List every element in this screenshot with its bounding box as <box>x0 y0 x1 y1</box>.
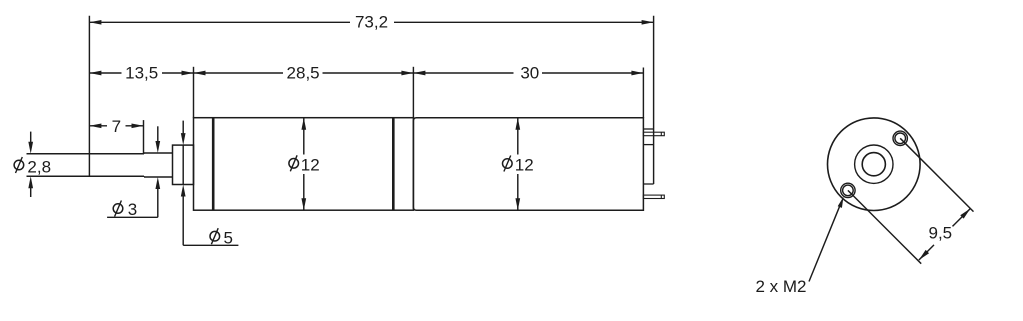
end view: bearing boss circle <box>855 145 893 183</box>
dimension 30 <box>413 64 643 83</box>
svg-text:3: 3 <box>128 200 137 219</box>
extension line at shaft tip x=89.4 <box>88 16 90 176</box>
svg-text:9,5: 9,5 <box>929 224 953 243</box>
dimension Ø12 motor <box>515 118 520 211</box>
gearbox rear bearing plate line <box>392 118 395 211</box>
dimension Ø2,8 arrows <box>28 132 33 197</box>
shaft Ø2.8 section <box>27 154 145 176</box>
svg-text:73,2: 73,2 <box>355 13 388 32</box>
extension line motor front x=413.4 <box>412 67 414 118</box>
svg-text:12: 12 <box>301 155 320 174</box>
end view: motor face circle <box>828 118 921 211</box>
dimension 28,5 <box>194 64 414 83</box>
label Ø12 gearbox <box>289 155 320 174</box>
gearbox front bearing plate line <box>212 118 215 211</box>
end view: shaft hole <box>862 153 885 176</box>
label Ø5 <box>210 228 233 247</box>
shaft Ø3 section <box>144 153 173 177</box>
gearbox body <box>194 118 414 211</box>
svg-text:13,5: 13,5 <box>125 64 158 83</box>
label Ø2,8 <box>14 157 51 176</box>
terminal pin top <box>643 132 664 136</box>
dimension 73,2 overall length <box>89 13 653 32</box>
leader 2 x M2 <box>756 197 844 296</box>
dimension 13,5 <box>89 64 193 83</box>
svg-text:7: 7 <box>112 117 121 136</box>
terminal pin bottom <box>643 195 664 198</box>
dimension Ø12 gearbox <box>301 118 306 211</box>
dimension 7 shaft front section <box>89 117 143 136</box>
label Ø3 <box>113 200 137 219</box>
motor body <box>413 118 643 211</box>
label Ø12 motor <box>503 155 534 174</box>
svg-text:28,5: 28,5 <box>287 64 320 83</box>
svg-text:5: 5 <box>224 228 233 247</box>
flange Ø5 <box>173 145 194 184</box>
mounting hole M2 upper right <box>893 131 907 145</box>
dimension Ø5 leader and arrows <box>181 121 239 246</box>
extension line shaft step x=143.5 <box>143 120 145 153</box>
dimension Ø3 leader and arrows <box>107 126 160 217</box>
mounting hole M2 lower left <box>841 183 855 197</box>
motor end cap <box>643 129 653 184</box>
extension line end cap rear x=653.6 <box>653 16 655 184</box>
svg-text:2,8: 2,8 <box>27 157 51 176</box>
svg-text:2 x M2: 2 x M2 <box>756 277 807 296</box>
dimension 9,5 between holes <box>848 138 974 263</box>
extension line gearbox front x=193.5 <box>193 67 195 118</box>
svg-text:30: 30 <box>520 64 539 83</box>
extension line motor rear x=643.4 <box>642 68 644 118</box>
svg-text:12: 12 <box>515 155 534 174</box>
